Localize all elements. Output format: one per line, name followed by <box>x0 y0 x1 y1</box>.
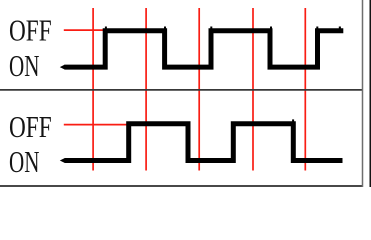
bottom border line <box>0 185 363 187</box>
OFF level red reference line (top panel) <box>64 29 107 31</box>
grid vertical red line 4 <box>252 8 254 171</box>
top waveform tick above rise 3 <box>316 27 318 29</box>
bottom waveform trace <box>65 124 343 161</box>
grid vertical red line 2 <box>145 8 147 171</box>
OFF level red reference line (bottom panel) <box>64 124 130 126</box>
svg-text:OFF: OFF <box>9 13 52 47</box>
panel separator line <box>0 89 363 91</box>
top waveform tick above fall 2 <box>270 27 272 29</box>
grid vertical red line 5 <box>304 8 306 171</box>
top waveform tick above rise 1 <box>105 27 107 29</box>
top waveform tick above rise 2 <box>210 27 212 29</box>
grid vertical red line 3 <box>198 8 200 171</box>
right inner border line <box>362 0 364 187</box>
svg-text:ON: ON <box>9 144 39 179</box>
top waveform tick near trace end <box>339 27 341 29</box>
svg-text:ON: ON <box>9 48 39 83</box>
top waveform start taper <box>60 65 65 70</box>
svg-text:OFF: OFF <box>9 110 52 144</box>
top waveform trace <box>65 31 344 67</box>
right outer border line <box>370 0 371 187</box>
bottom waveform tick above fall 2 <box>292 119 294 121</box>
top waveform tick above fall 1 <box>164 27 166 29</box>
bottom waveform start taper <box>60 158 65 163</box>
grid vertical red line 1 <box>92 8 94 171</box>
